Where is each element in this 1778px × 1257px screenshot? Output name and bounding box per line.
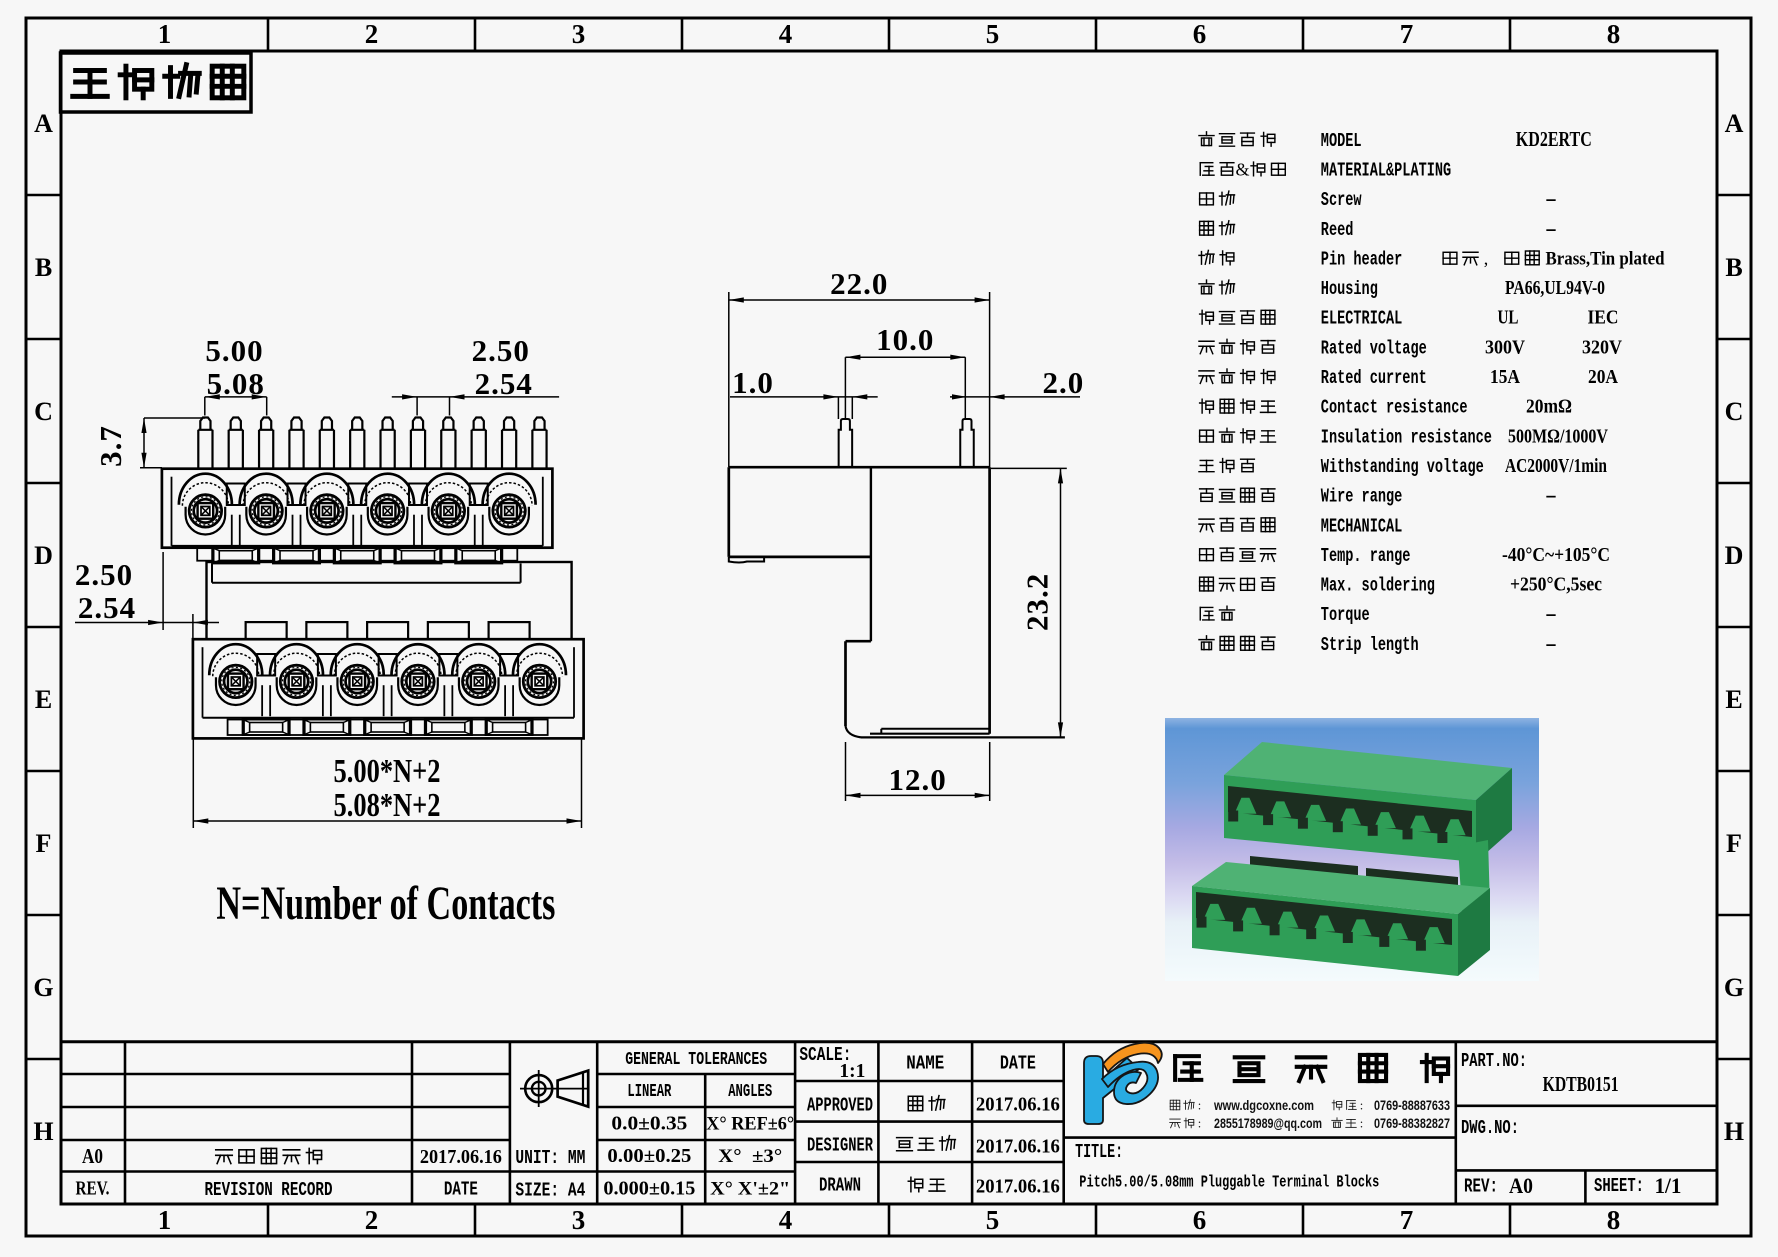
svg-text:F: F	[36, 829, 52, 858]
svg-text:Pin header: Pin header	[1321, 248, 1403, 270]
svg-text:Temp. range: Temp. range	[1321, 545, 1411, 567]
svg-text:0769-88382827: 0769-88382827	[1374, 1116, 1450, 1131]
svg-text:0.0±0.35: 0.0±0.35	[611, 1112, 687, 1134]
svg-text:Screw: Screw	[1321, 189, 1362, 211]
svg-text:20A: 20A	[1588, 366, 1618, 388]
svg-text:6: 6	[1193, 1205, 1207, 1235]
svg-text:X° REF±6°: X° REF±6°	[706, 1113, 794, 1134]
svg-text:1/1: 1/1	[1655, 1173, 1682, 1198]
svg-text:5: 5	[986, 1205, 1000, 1235]
svg-text:-40°C~+105°C: -40°C~+105°C	[1502, 544, 1610, 566]
svg-text:APPROVED: APPROVED	[807, 1094, 873, 1116]
svg-text:-: -	[1545, 633, 1557, 655]
svg-text:SIZE: A4: SIZE: A4	[515, 1180, 585, 1202]
svg-text:Contact resistance: Contact resistance	[1321, 397, 1468, 419]
svg-text:2.54: 2.54	[475, 366, 533, 401]
svg-text:C: C	[1725, 397, 1744, 426]
svg-text:5.08*N+2: 5.08*N+2	[334, 787, 441, 824]
svg-text:Strip length: Strip length	[1321, 634, 1419, 656]
svg-text:8: 8	[1607, 1205, 1621, 1235]
svg-text:UL: UL	[1498, 307, 1519, 329]
svg-text:E: E	[1725, 685, 1742, 714]
svg-text:AC2000V/1min: AC2000V/1min	[1505, 455, 1607, 477]
svg-text:0769-88887633: 0769-88887633	[1374, 1098, 1450, 1113]
svg-text:A0: A0	[82, 1144, 103, 1168]
svg-text:2: 2	[365, 1205, 379, 1235]
svg-text:1: 1	[158, 1205, 172, 1235]
svg-text:MODEL: MODEL	[1321, 130, 1362, 152]
svg-text:-: -	[1545, 485, 1557, 507]
svg-text:1.0: 1.0	[732, 365, 774, 400]
svg-text:PART.NO:: PART.NO:	[1461, 1050, 1527, 1072]
svg-text:H: H	[33, 1117, 53, 1146]
svg-text:GENERAL TOLERANCES: GENERAL TOLERANCES	[625, 1050, 767, 1070]
svg-text:320V: 320V	[1582, 336, 1622, 358]
svg-text:LINEAR: LINEAR	[627, 1082, 671, 1102]
svg-text:20mΩ: 20mΩ	[1526, 396, 1572, 418]
svg-text:5: 5	[986, 19, 1000, 49]
svg-text:Pitch5.00/5.08mm Pluggable Ter: Pitch5.00/5.08mm Pluggable Terminal Bloc…	[1079, 1173, 1379, 1192]
svg-text:3: 3	[572, 1205, 586, 1235]
svg-text:A0: A0	[1509, 1173, 1533, 1198]
svg-text:22.0: 22.0	[830, 266, 888, 301]
svg-text:0.000±0.15: 0.000±0.15	[603, 1177, 695, 1199]
svg-text:5.00*N+2: 5.00*N+2	[334, 753, 441, 790]
svg-text:DWG.NO:: DWG.NO:	[1461, 1117, 1519, 1139]
svg-text:www.dgcoxne.com: www.dgcoxne.com	[1213, 1098, 1314, 1113]
svg-text:DRAWN: DRAWN	[819, 1175, 861, 1197]
svg-text:6: 6	[1193, 19, 1207, 49]
svg-text:C: C	[34, 397, 53, 426]
svg-text:15A: 15A	[1490, 366, 1520, 388]
svg-text:ANGLES: ANGLES	[728, 1082, 772, 1102]
svg-text:Insulation resistance: Insulation resistance	[1321, 426, 1492, 448]
svg-text:E: E	[35, 685, 52, 714]
svg-text:IEC: IEC	[1588, 307, 1619, 329]
svg-text::: :	[1360, 1116, 1364, 1130]
svg-text:4: 4	[779, 1205, 793, 1235]
svg-text:-: -	[1545, 218, 1557, 240]
svg-text:2017.06.16: 2017.06.16	[976, 1176, 1060, 1198]
svg-text:7: 7	[1400, 1205, 1414, 1235]
svg-text:12.0: 12.0	[888, 762, 946, 797]
svg-text:-: -	[1545, 188, 1557, 210]
svg-text:4: 4	[779, 19, 793, 49]
svg-text:DESIGNER: DESIGNER	[807, 1134, 873, 1156]
svg-text:MATERIAL&PLATING: MATERIAL&PLATING	[1321, 159, 1451, 181]
svg-text:Reed: Reed	[1321, 219, 1354, 241]
svg-text:2017.06.16: 2017.06.16	[976, 1135, 1060, 1157]
svg-text:DATE: DATE	[444, 1179, 478, 1201]
svg-text:ELECTRICAL: ELECTRICAL	[1321, 308, 1403, 330]
svg-text:REV:: REV:	[1464, 1176, 1498, 1198]
svg-text:Wire range: Wire range	[1321, 486, 1403, 508]
svg-text:300V: 300V	[1485, 336, 1525, 358]
svg-text:REV.: REV.	[76, 1178, 110, 1200]
svg-text:7: 7	[1400, 19, 1414, 49]
svg-text:Rated current: Rated current	[1321, 367, 1427, 389]
svg-text:F: F	[1726, 829, 1742, 858]
svg-text:&: &	[1235, 159, 1249, 179]
svg-text:,: ,	[1484, 248, 1489, 268]
svg-text:DATE: DATE	[1000, 1053, 1036, 1075]
svg-text:SHEET:: SHEET:	[1594, 1175, 1644, 1197]
svg-text:Withstanding voltage: Withstanding voltage	[1321, 456, 1484, 478]
svg-text:Rated voltage: Rated voltage	[1321, 337, 1427, 359]
svg-text:3: 3	[572, 19, 586, 49]
svg-text:5.00: 5.00	[205, 333, 263, 368]
svg-text:-: -	[1545, 603, 1557, 625]
svg-text:Torque: Torque	[1321, 604, 1370, 626]
svg-text:0.00±0.25: 0.00±0.25	[607, 1145, 691, 1167]
svg-text:2.50: 2.50	[75, 557, 133, 592]
svg-text:10.0: 10.0	[876, 322, 934, 357]
svg-text::: :	[1198, 1098, 1202, 1112]
svg-text::: :	[1198, 1116, 1202, 1130]
svg-text:1: 1	[158, 19, 172, 49]
svg-text:Max. soldering: Max. soldering	[1321, 575, 1435, 597]
svg-text:D: D	[34, 541, 53, 570]
svg-text:2855178989@qq.com: 2855178989@qq.com	[1214, 1116, 1322, 1131]
svg-text::: :	[1360, 1098, 1364, 1112]
svg-text:2.50: 2.50	[472, 333, 530, 368]
svg-text:8: 8	[1607, 19, 1621, 49]
svg-text:A: A	[34, 109, 53, 138]
svg-text:2.54: 2.54	[78, 590, 136, 625]
svg-text:G: G	[1724, 973, 1744, 1002]
svg-text:A: A	[1725, 109, 1744, 138]
svg-text:H: H	[1724, 1117, 1744, 1146]
svg-text:2.0: 2.0	[1043, 365, 1085, 400]
svg-text:2017.06.16: 2017.06.16	[976, 1093, 1060, 1115]
svg-text:3.7: 3.7	[93, 425, 128, 467]
svg-text:Housing: Housing	[1321, 278, 1378, 300]
svg-text:X° ±3°: X° ±3°	[718, 1146, 782, 1167]
svg-text:TITLE:: TITLE:	[1075, 1141, 1123, 1163]
svg-text:N=Number of Contacts: N=Number of Contacts	[216, 877, 555, 930]
svg-text:+250°C,5sec: +250°C,5sec	[1510, 574, 1602, 596]
svg-text:UNIT: MM: UNIT: MM	[515, 1147, 585, 1169]
svg-text:D: D	[1725, 541, 1744, 570]
svg-text:Brass,Tin plated: Brass,Tin plated	[1546, 248, 1665, 269]
svg-text:NAME: NAME	[906, 1053, 944, 1075]
svg-text:2017.06.16: 2017.06.16	[420, 1146, 502, 1168]
svg-text:B: B	[1725, 253, 1742, 282]
svg-text:X° X'±2": X° X'±2"	[710, 1178, 790, 1199]
svg-text:2: 2	[365, 19, 379, 49]
svg-text:KDTB0151: KDTB0151	[1543, 1072, 1619, 1096]
svg-text:PA66,UL94V-0: PA66,UL94V-0	[1505, 277, 1605, 299]
svg-text:B: B	[35, 253, 52, 282]
svg-text:23.2: 23.2	[1020, 573, 1055, 631]
svg-text:REVISION RECORD: REVISION RECORD	[205, 1179, 333, 1201]
svg-text:KD2ERTC: KD2ERTC	[1516, 127, 1592, 151]
svg-text:G: G	[33, 973, 53, 1002]
svg-text:500MΩ/1000V: 500MΩ/1000V	[1508, 425, 1608, 447]
svg-text:MECHANICAL: MECHANICAL	[1321, 515, 1403, 537]
svg-text:1:1: 1:1	[839, 1060, 865, 1082]
